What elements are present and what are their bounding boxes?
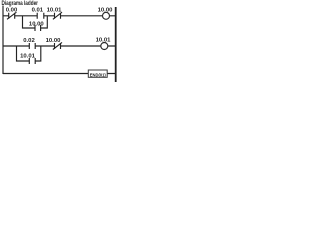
node label 10.01 branch2 xyxy=(20,53,35,59)
wire rung2 xyxy=(3,45,116,47)
contact 0.02 (NO) xyxy=(29,43,35,49)
right power rail xyxy=(115,7,117,82)
node label 10.00 branch1 xyxy=(29,22,44,28)
wire end rung xyxy=(3,73,116,75)
contact 10.00 (NC interlock) xyxy=(53,42,62,49)
node label 0.02 xyxy=(23,38,35,44)
svg-text:END(01): END(01) xyxy=(90,72,107,77)
svg-text:Diagrama ladder: Diagrama ladder xyxy=(2,1,39,7)
node label 10.00 rung2 xyxy=(46,38,61,44)
node label 0.00 xyxy=(6,8,18,14)
svg-text:10.01: 10.01 xyxy=(20,53,35,59)
coil 10.01 xyxy=(101,43,108,50)
contact 0.00 (NC) xyxy=(7,12,16,19)
svg-text:0.01: 0.01 xyxy=(32,8,44,14)
node label 10.01 coil2 xyxy=(96,37,111,43)
instruction box END(01) xyxy=(88,70,107,77)
contact 10.00 (NO, seal-in) xyxy=(35,25,41,31)
node label 10.01 xyxy=(47,8,62,14)
title text (clipped at top) xyxy=(2,1,39,7)
contact 10.01 (NO, seal-in) xyxy=(29,58,35,64)
wire branch2 xyxy=(17,46,41,61)
node label 0.01 xyxy=(32,8,44,14)
wire rung1 xyxy=(3,15,116,17)
svg-text:10.00: 10.00 xyxy=(46,38,61,44)
node label 10.00 coil1 xyxy=(98,8,113,14)
wire branch1 xyxy=(23,16,48,28)
left power rail xyxy=(2,6,4,75)
coil 10.00 xyxy=(103,12,110,19)
svg-text:10.00: 10.00 xyxy=(29,22,44,28)
svg-text:10.01: 10.01 xyxy=(47,8,62,14)
contact 0.01 (NO) xyxy=(37,13,44,19)
contact 10.01 (NC) xyxy=(53,12,62,19)
